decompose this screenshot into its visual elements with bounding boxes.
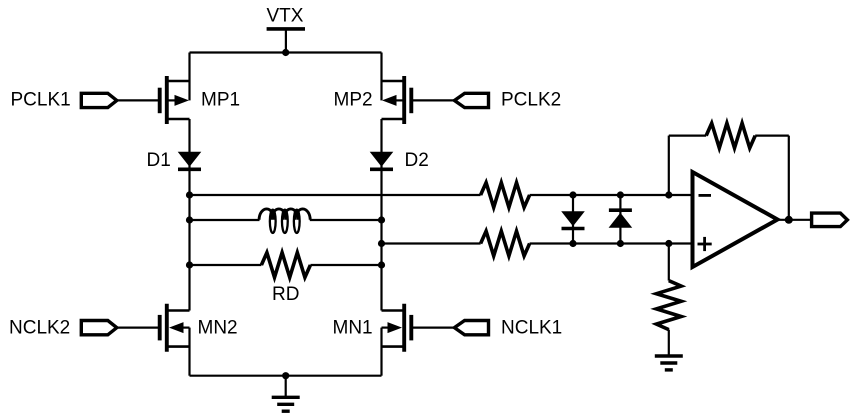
port output — [812, 213, 848, 227]
svg-text:D2: D2 — [405, 150, 429, 171]
wire op-amp output — [778, 219, 812, 221]
power symbol VTX — [267, 27, 305, 31]
node dot right branch / RD — [378, 261, 385, 268]
wire ground stem — [285, 376, 287, 398]
wire right branch vertical — [380, 119, 382, 311]
wire VTX stem — [285, 29, 287, 53]
svg-text:D1: D1 — [147, 150, 171, 171]
node dot output / feedback — [785, 216, 793, 224]
wire coil line left — [190, 219, 260, 221]
wire MN1 source vertical — [380, 328, 382, 376]
resistor series (bottom, to op-amp plus) — [481, 231, 530, 256]
resistor feedback — [706, 123, 755, 148]
port NCLK1 (input, mirrored) — [454, 321, 488, 335]
wire MP2 drain to rail — [380, 53, 382, 101]
node dot left branch / top line — [186, 191, 193, 198]
svg-text:MP2: MP2 — [334, 90, 373, 111]
svg-text:VTX: VTX — [267, 6, 304, 27]
diode D2 — [370, 152, 394, 170]
svg-text:MN2: MN2 — [198, 318, 238, 339]
wire RD line right — [310, 264, 381, 266]
wire clamp diode 2 stem — [619, 195, 621, 244]
node dot left branch / RD — [186, 261, 193, 268]
port NCLK2 (input) — [81, 321, 117, 335]
op-amp U1 — [693, 172, 778, 267]
node dots clamp diode 1 — [569, 191, 576, 198]
wire top line right segment — [530, 194, 693, 196]
wire bottom rail — [190, 375, 382, 377]
diode D1 — [178, 152, 202, 170]
ground (main) — [272, 397, 300, 411]
wire left branch vertical — [188, 119, 190, 311]
wire coil line right — [310, 219, 382, 221]
wire feedback right vertical — [788, 136, 790, 220]
wire MP2 gate lead — [413, 99, 454, 101]
wire ground resistor bottom — [668, 330, 670, 356]
svg-text:MP1: MP1 — [201, 90, 240, 111]
wire feedback top right segment — [755, 135, 789, 137]
transistor MP1 (PMOS) — [160, 76, 190, 124]
port PCLK2 (input, mirrored) — [454, 93, 488, 107]
resistor RD — [261, 253, 310, 278]
svg-text:RD: RD — [272, 284, 299, 305]
transistor MN2 (NMOS) — [160, 304, 190, 352]
wire top rail VTX net — [190, 51, 382, 53]
wire RD line left — [190, 264, 262, 266]
svg-text:PCLK1: PCLK1 — [11, 90, 71, 111]
port PCLK1 (input) — [81, 93, 117, 107]
wire to ground resistor — [668, 244, 670, 281]
node dot feedback tap on minus line — [665, 191, 672, 198]
diode clamp (down) — [561, 211, 585, 228]
wire feedback left vertical — [668, 136, 670, 195]
diode clamp (up) — [609, 210, 633, 228]
wire MN1 gate lead — [413, 327, 454, 329]
inductor (coil between branches) — [259, 209, 310, 233]
transistor MP2 (PMOS, mirrored) — [382, 76, 412, 124]
wire feedback top left segment — [669, 135, 706, 137]
ground (op-amp bias) — [655, 356, 683, 370]
node dot bottom rail / ground — [282, 372, 289, 379]
resistor to ground (op-amp plus bias) — [656, 281, 681, 330]
wire plus line right segment — [530, 242, 693, 244]
wire MP1 gate lead — [117, 99, 158, 101]
svg-text:MN1: MN1 — [333, 318, 373, 339]
node dot right branch / coil line — [378, 216, 385, 223]
transistor MN1 (NMOS, mirrored) — [382, 304, 412, 352]
svg-text:PCLK2: PCLK2 — [501, 90, 561, 111]
node dot left branch / coil line — [186, 216, 193, 223]
wire clamp diode 1 stem — [572, 195, 574, 244]
wire MP1 drain to rail — [188, 53, 190, 101]
wire MN2 gate lead — [117, 327, 158, 329]
svg-text:NCLK2: NCLK2 — [9, 318, 70, 339]
wire top line (minus net) left segment — [190, 194, 481, 196]
node dot ground-resistor tap on plus line — [665, 240, 672, 247]
node dot right branch / plus line — [378, 240, 385, 247]
node VTX junction dot — [282, 49, 289, 56]
node dots clamp diode 2 — [617, 191, 624, 198]
svg-text:NCLK1: NCLK1 — [501, 318, 562, 339]
wire MN2 source vertical — [188, 328, 190, 376]
wire plus net line — [382, 242, 481, 244]
resistor series (top, to op-amp minus) — [481, 183, 530, 208]
